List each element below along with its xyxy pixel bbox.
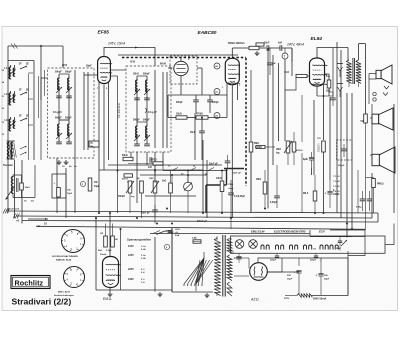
capacitor 200pF: [176, 95, 199, 113]
resistor 170R cathode: [317, 138, 325, 152]
capacitor 5nF top: [269, 43, 292, 51]
circled 2 mains: [164, 244, 169, 249]
resistor right mid: [256, 170, 267, 208]
mains switch: [156, 230, 172, 235]
wire mains vertical 1: [154, 237, 156, 290]
wire AF switch row: [163, 166, 228, 176]
wire b+ to bus: [299, 251, 348, 262]
label IV B: [130, 60, 135, 64]
volume pot box: [52, 174, 73, 198]
arrow 10 label: [36, 222, 47, 228]
label 14R mid: [122, 174, 133, 184]
label 245V 10mA: [107, 42, 125, 46]
resistor 10k: [176, 114, 187, 120]
wire transformer leads: [217, 236, 234, 296]
speaker LS1: [376, 65, 392, 84]
wire af drop lines: [202, 120, 232, 218]
wire EABC80 anode up: [232, 48, 237, 58]
socket diagram circle 2: [64, 267, 85, 288]
speaker LS3: [372, 147, 395, 173]
wire EF85 anode to supply: [104, 47, 138, 56]
speaker LS2: [372, 108, 393, 130]
bus junction dots: [95, 207, 353, 230]
capacitor 0.05 right: [270, 165, 280, 208]
resistor 60k vert: [255, 43, 264, 56]
heater chain box: [231, 236, 386, 253]
wire EM11 bottom: [96, 287, 120, 296]
test point A3: [214, 113, 220, 119]
wire top-left horizontal feed: [8, 45, 63, 68]
IF can lower tuned circuit: [133, 120, 150, 146]
resistor 470R: [128, 159, 163, 171]
wire right loop vertical: [310, 230, 365, 296]
bus line 5: [150, 233, 310, 235]
detector can (dashed box): [170, 56, 197, 84]
label M III: [160, 62, 166, 66]
label EABC80: [198, 30, 217, 36]
label 200V 50mA: [284, 298, 327, 301]
tube EABC80 V2: [225, 58, 240, 84]
tube EL84 V3: [310, 58, 328, 86]
wire fb links: [265, 95, 302, 213]
coil L2 group: [5, 90, 34, 106]
wire drops below can: [57, 158, 75, 218]
wire detector links: [168, 57, 202, 95]
capacitor 8uF cathode: [303, 152, 314, 168]
capacitor 0.01 pair right: [356, 191, 372, 211]
ladder pin number labels: [2, 70, 5, 136]
transformer T1 HT winding: [227, 255, 232, 281]
pot 1M treble: [149, 178, 159, 193]
switch S1 wave band contacts: [20, 146, 27, 155]
resistor 500k top: [237, 46, 266, 49]
resistor 470k: [196, 113, 208, 120]
jack symbol pickup 2: [337, 84, 343, 98]
label 100nF: [197, 221, 208, 223]
heater EM11: [261, 245, 269, 249]
label 240V 48mA: [286, 43, 304, 47]
transformer T1 heater winding: [227, 239, 232, 254]
wire ladder right rail: [33, 61, 35, 161]
resistor M05 left: [303, 175, 317, 213]
label ZF 460 kHz (rotated): [117, 102, 121, 118]
elco 100uF right: [325, 180, 341, 208]
title Stradivari: [12, 297, 72, 307]
coil bass choke with core: [6, 177, 19, 200]
wire left ladder vertical rail: [7, 46, 9, 162]
wire top long link: [118, 54, 238, 56]
coil L4 ferrite with core: [3, 141, 16, 167]
bandfilter can (dashed shield box): [48, 68, 95, 158]
switch list labels: [333, 176, 340, 193]
wire el84 drops: [312, 95, 334, 213]
label Lg21: [53, 111, 62, 114]
voltage table: [128, 245, 146, 284]
wire EL84 anode: [317, 48, 348, 59]
socket diagram 1 caption: [52, 255, 78, 262]
dial lamp 2: [249, 240, 258, 249]
socket diagram 2 caption: [54, 291, 75, 298]
capacitor 500pF det: [207, 95, 219, 113]
resistor 5R: [361, 114, 368, 123]
resistor right edge: [366, 178, 385, 214]
capacitor 0.1uF phono: [228, 180, 245, 229]
capacitor 25nF top: [264, 43, 270, 51]
connector box 14a/14b: [89, 141, 99, 148]
bus line 4: [36, 226, 365, 229]
wire speaker1 leads: [349, 74, 376, 105]
tube EM11: [103, 257, 121, 288]
fuse 0.8A: [192, 237, 201, 244]
phono input PHO: [184, 171, 193, 214]
wire AZ11 anodes: [234, 258, 250, 276]
dial lamp 1: [235, 240, 244, 249]
resistor 10k phono: [216, 171, 234, 214]
wire vertical supply lines right: [337, 42, 394, 238]
mains text block: [175, 229, 182, 237]
wire ladder bottom drops: [8, 160, 22, 224]
heater ECH81: [320, 245, 328, 249]
capacitor 4nF: [148, 157, 153, 169]
resistor 60k below EF85: [122, 155, 133, 161]
wire IF can internals: [137, 70, 167, 148]
resistor grid stopper: [296, 72, 311, 78]
capacitor 25nF AF: [209, 155, 230, 169]
label Spannungswaehler: [127, 238, 152, 242]
label EL84: [311, 36, 323, 42]
resistor 470k fb: [292, 132, 303, 165]
resistor 1M EM11 b: [111, 236, 118, 247]
label AZ11: [250, 298, 259, 302]
wire speaker bus: [366, 104, 373, 230]
Rochlitz logo text: [15, 279, 44, 288]
heater EL84: [276, 245, 284, 249]
resistor 10k choke: [20, 183, 30, 190]
wire EABC80 pins: [222, 83, 241, 120]
wire second horizontal feed: [8, 60, 34, 62]
wire bottom right loop: [311, 258, 348, 296]
label M II: [62, 63, 67, 67]
wire spw vertical: [120, 229, 122, 290]
capacitor 68nF: [141, 205, 158, 218]
heater EF85: [304, 245, 312, 249]
pot bass: [137, 177, 143, 193]
capacitor 30pF heater: [270, 253, 279, 261]
wire EF85 pin drops: [97, 82, 109, 213]
resistor 0.1M on AVC: [249, 142, 262, 213]
capacitor 4700: [153, 231, 174, 235]
bus line 3: [22, 221, 378, 223]
capacitor 25nF coupling: [190, 131, 205, 140]
output transformer core: [353, 58, 355, 84]
heater chain labels: [251, 230, 325, 234]
wire AZ11 output: [258, 258, 299, 272]
wire pot drops: [130, 171, 171, 224]
voltage selector fan: [183, 252, 213, 291]
wire pot row horizontals: [99, 165, 222, 196]
AVC heavy dotted line: [122, 58, 251, 214]
label EM11: [103, 297, 112, 301]
heater EABC80: [290, 245, 298, 249]
resistor mains dropper: [285, 294, 312, 298]
tube EF85 V1: [98, 57, 112, 84]
coil ratio detector (circle core): [174, 55, 190, 76]
resistor 1k AF: [162, 181, 172, 194]
dashed can small (tone cap): [337, 140, 353, 167]
bandfilter upper tuned circuit: [55, 72, 72, 98]
corner right bus down: [377, 213, 379, 222]
Rochlitz logo box: [11, 276, 50, 289]
resistor 5M feedback: [254, 143, 265, 149]
elco 16uF: [287, 271, 302, 296]
socket diagram circle 1: [62, 230, 85, 253]
ground bandfilter bottom: [57, 160, 78, 168]
bandfilter lower tuned circuit: [55, 118, 72, 144]
bus line 2: [16, 216, 372, 218]
coil L1 antenna group: [5, 64, 34, 80]
IF can (dashed shield box): [126, 66, 171, 152]
wire choke loop: [13, 165, 35, 203]
transformer T1 primary: [214, 238, 220, 296]
speaker terminal circles: [373, 86, 389, 101]
capacitor 1nF: [267, 48, 276, 75]
heater extra: [330, 245, 338, 249]
wire tone chain to grid: [284, 48, 296, 141]
pot 1M lin: [276, 141, 292, 154]
wire vertical from node to tuner: [40, 46, 42, 100]
wire bandfilter internal links: [59, 70, 88, 158]
pot 500k volume: [118, 181, 135, 198]
wire transformer top leads: [348, 44, 366, 115]
wire EL84 cathode: [317, 85, 324, 140]
wire heater box right: [385, 224, 394, 245]
test point A2: [214, 63, 220, 69]
label Lg27: [145, 108, 157, 114]
elco 50uF: [316, 262, 330, 295]
wire mains vertical 2 thick: [171, 228, 173, 292]
coil L3 group: [5, 116, 34, 132]
wire mains bottom: [120, 290, 213, 297]
wire EL84 screen: [332, 48, 334, 97]
bus hatch marks left: [3, 209, 20, 219]
wire IF can bottom drops: [131, 152, 163, 203]
wire B+ feed bold bar: [206, 169, 244, 214]
wire EF85 grid link to can: [11, 44, 126, 214]
bus line 1: [6, 211, 378, 213]
wire vertical lines centre-right: [195, 48, 330, 218]
resistor 1M EM11 a: [100, 233, 107, 247]
transformer T1 core: [223, 235, 225, 297]
wire y236 segment: [310, 230, 352, 237]
capacitor 0.1 screen: [329, 92, 336, 106]
tone switch circle: [282, 48, 288, 59]
IF can upper tuned circuit: [133, 74, 150, 100]
tube AZ11 rectifier: [250, 263, 268, 281]
label 500k pot: [228, 42, 245, 45]
EM11 labels: [98, 250, 112, 256]
jack symbol pickup 1: [337, 64, 343, 78]
output transformer T2 secondary: [356, 60, 361, 83]
wire 245V riser: [138, 48, 155, 67]
AF row dots: [116, 169, 223, 171]
capacitor 200pF heater: [234, 253, 319, 263]
resistor M coupling: [80, 178, 99, 191]
test point A1: [214, 89, 220, 95]
wire B+ from rectifier: [267, 258, 299, 272]
label EF85: [98, 30, 110, 36]
transformer T1 lower winding: [227, 282, 232, 296]
wire det network: [168, 95, 227, 131]
wire EM11 feeders: [96, 213, 113, 290]
arrow +9 label: [16, 218, 48, 223]
trimmer cluster right: [313, 237, 347, 251]
output transformer T2 primary: [346, 60, 351, 83]
label 30pF: [86, 65, 92, 68]
resistor 1k screen: [325, 74, 331, 96]
